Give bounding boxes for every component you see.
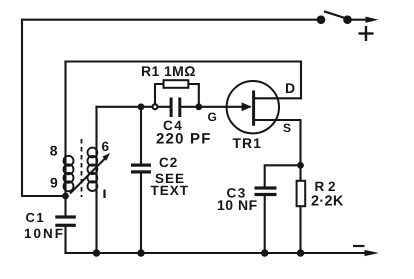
- wire C4 right to gate: [181, 106, 249, 108]
- wire R2 top lead: [299, 165, 301, 181]
- transformer tuning arrow: [70, 153, 110, 194]
- wire switch to plus arrow: [348, 19, 370, 21]
- switch S1: [317, 11, 379, 24]
- svg-text:D: D: [285, 80, 295, 96]
- svg-text:6: 6: [102, 139, 110, 154]
- wire junction to C3: [265, 165, 301, 186]
- wire top rail: [22, 19, 321, 21]
- wire winding 8-9 vertical: [64, 62, 66, 197]
- node terminal circle: [153, 104, 158, 109]
- svg-text:TR1: TR1: [233, 135, 262, 151]
- svg-text:8: 8: [50, 143, 58, 159]
- minus terminal label: [353, 245, 365, 247]
- wire gate feed horizontal: [97, 106, 170, 108]
- svg-text:220 PF: 220 PF: [156, 131, 212, 148]
- node rail junction pin1: [93, 249, 100, 256]
- svg-text:9: 9: [50, 175, 58, 191]
- node junction left: [62, 193, 69, 200]
- wire C1 top lead: [64, 196, 66, 215]
- bottom rail arrow: [365, 250, 380, 256]
- node junction gate feed: [138, 103, 145, 110]
- wire C1 bottom lead: [64, 227, 66, 253]
- capacitor C1: [55, 215, 76, 227]
- transistor TR1: [227, 81, 279, 133]
- transformer T1 left winding: [64, 156, 74, 192]
- node rail junction C3: [261, 249, 268, 256]
- capacitor C3: [255, 186, 277, 196]
- svg-text:C1: C1: [26, 210, 46, 225]
- wire C3 bottom lead: [264, 196, 266, 253]
- transformer T1 core: [81, 139, 83, 197]
- svg-text:2·2K: 2·2K: [311, 194, 344, 210]
- capacitor C4: [170, 98, 182, 118]
- wire bottom rail: [66, 252, 371, 254]
- wire source to junction: [254, 120, 301, 165]
- svg-text:10 NF: 10 NF: [217, 197, 258, 213]
- wire C2 bottom lead: [140, 174, 142, 254]
- wire left bottom horizontal: [22, 195, 66, 197]
- wire R1 right branch: [188, 84, 199, 107]
- svg-text:R 2: R 2: [315, 179, 336, 194]
- node rail junction R2: [297, 249, 304, 256]
- wire C2 top lead: [140, 107, 142, 164]
- plus terminal label: [359, 26, 374, 41]
- node rail junction C2: [137, 249, 144, 256]
- svg-text:R1 1MΩ: R1 1MΩ: [141, 63, 196, 79]
- node junction gate: [195, 103, 202, 110]
- wire R1 left branch: [155, 84, 164, 107]
- wire winding 6-1 vertical: [95, 107, 97, 253]
- svg-text:G: G: [208, 110, 217, 124]
- node junction source: [297, 162, 304, 169]
- svg-text:C2: C2: [159, 155, 178, 170]
- resistor R2: [297, 181, 306, 206]
- svg-text:10NF: 10NF: [24, 226, 65, 241]
- svg-text:TEXT: TEXT: [151, 183, 190, 198]
- transformer T1 right winding: [88, 148, 98, 191]
- wire inner top rail to drain loop: [66, 62, 302, 99]
- capacitor C2: [131, 164, 151, 174]
- wire R2 bottom lead: [299, 206, 301, 253]
- wire left outer rail: [21, 20, 23, 196]
- resistor R1: [164, 80, 189, 88]
- svg-text:S: S: [283, 121, 291, 135]
- pin 1: [103, 190, 105, 199]
- wire drain inside to loop: [254, 97, 301, 99]
